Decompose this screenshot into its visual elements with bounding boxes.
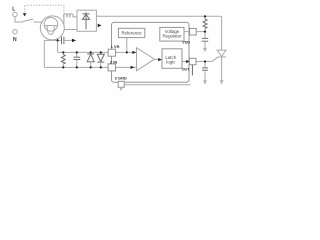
resistor R1 bbox=[204, 16, 206, 19]
comparator U1a bbox=[137, 48, 155, 71]
pin 3 GND pad bbox=[118, 81, 124, 87]
VR rail bbox=[58, 51, 109, 53]
resistor R2 on rails bbox=[62, 52, 64, 54]
lamp inner circle bbox=[44, 18, 58, 32]
rectifier diode bbox=[85, 12, 87, 29]
svg-text:L: L bbox=[12, 7, 15, 13]
svg-text:OUT: OUT bbox=[182, 67, 191, 71]
wire VR box to VDD pin bbox=[184, 31, 190, 33]
diode D2 down bbox=[100, 52, 102, 54]
terminal L bbox=[13, 12, 17, 16]
pin 2 IN pad bbox=[108, 64, 115, 71]
junction dots rail 1 bbox=[62, 51, 64, 53]
SCR Q1 triangle bbox=[217, 50, 226, 56]
wire lamp to rectifier lower input bbox=[64, 29, 77, 31]
svg-text:VDD: VDD bbox=[182, 41, 190, 45]
svg-text:Reference: Reference bbox=[121, 31, 142, 36]
wire L to switch bbox=[15, 17, 23, 22]
lamp LA1 outer circle bbox=[40, 16, 64, 40]
Reference box bbox=[118, 28, 144, 37]
lamp inner chord bbox=[44, 25, 57, 27]
wire latch to OUT pin bbox=[182, 61, 189, 63]
arrow comparator to latch bbox=[158, 58, 162, 61]
svg-text:2 IN: 2 IN bbox=[110, 59, 117, 64]
arrow below C3 bbox=[203, 48, 207, 52]
rectifier box bbox=[77, 10, 96, 31]
wire VDD pin to node bbox=[196, 31, 205, 33]
junction dot VDD node bbox=[204, 31, 206, 33]
capacitor C4 at OUT node bbox=[204, 62, 206, 68]
wire comparator to latch bbox=[155, 58, 162, 60]
diode D1 up bbox=[90, 52, 92, 54]
svg-text:3 GND: 3 GND bbox=[115, 76, 127, 81]
Voltage Regulator box bbox=[160, 27, 184, 41]
pin VDD pad bbox=[190, 28, 197, 35]
top supply wire bbox=[96, 16, 221, 50]
lamp base line bbox=[44, 39, 57, 41]
arrow latch to OUT pin bbox=[186, 60, 189, 63]
dashed touch-plate line bbox=[25, 5, 64, 15]
svg-text:N: N bbox=[13, 37, 17, 43]
junction dots rail 2 bbox=[62, 66, 64, 68]
stub below OUT pin bbox=[191, 65, 193, 76]
IN rail bbox=[44, 66, 108, 68]
arrow bottom C4 branch bbox=[203, 80, 207, 84]
Latch logic box bbox=[162, 49, 182, 69]
wire riser to IN rail bbox=[43, 40, 45, 67]
SCR cathode bar bbox=[217, 56, 226, 58]
wire OUT pin to node bbox=[196, 61, 205, 63]
junction dot OUT node bbox=[204, 60, 206, 62]
terminal N bbox=[13, 30, 17, 34]
arrow below GND pin bbox=[119, 87, 123, 91]
junction dot top wire bbox=[204, 15, 206, 17]
light continuation arrows bbox=[119, 48, 224, 91]
labels bbox=[12, 7, 190, 81]
arrow after C1 bbox=[72, 39, 76, 43]
arrow comparator input 2 bbox=[131, 66, 135, 69]
SCR cathode wire down bbox=[221, 57, 223, 81]
touch arrow bbox=[23, 13, 27, 16]
capacitor C3 at VDD node bbox=[204, 32, 206, 39]
svg-text:1 VR: 1 VR bbox=[111, 44, 120, 49]
pin 1 VR pad bbox=[108, 49, 115, 56]
bottom ground wire bbox=[124, 84, 190, 86]
wire coil node down to lamp bbox=[63, 16, 65, 25]
wire pin2 to comparator bbox=[116, 66, 137, 68]
svg-text:Regulator: Regulator bbox=[162, 33, 182, 38]
wire pin1 to comparator bbox=[116, 51, 137, 53]
switch S1 blade bbox=[23, 19, 33, 22]
rectifier dc output arrow bbox=[98, 24, 102, 28]
capacitor C2 on rails bbox=[76, 52, 78, 57]
SCR gate wire bbox=[205, 57, 218, 61]
capacitor C1 on base line bbox=[58, 39, 62, 41]
wire switch to lamp bbox=[34, 21, 42, 23]
svg-text:logic: logic bbox=[166, 59, 176, 64]
junction dot reference riser bbox=[126, 51, 128, 53]
lamp filament cup bbox=[47, 26, 54, 35]
inductor L1 bbox=[64, 14, 77, 17]
IC U1 outline bbox=[112, 22, 190, 82]
wire riser to VR rail bbox=[57, 40, 59, 52]
riser to reference box bbox=[126, 38, 128, 53]
arrow bottom SCR branch bbox=[220, 80, 224, 84]
arrow comparator input 1 bbox=[132, 51, 136, 54]
pin OUT pad bbox=[189, 58, 196, 64]
junction dot lamp base bbox=[57, 39, 59, 41]
